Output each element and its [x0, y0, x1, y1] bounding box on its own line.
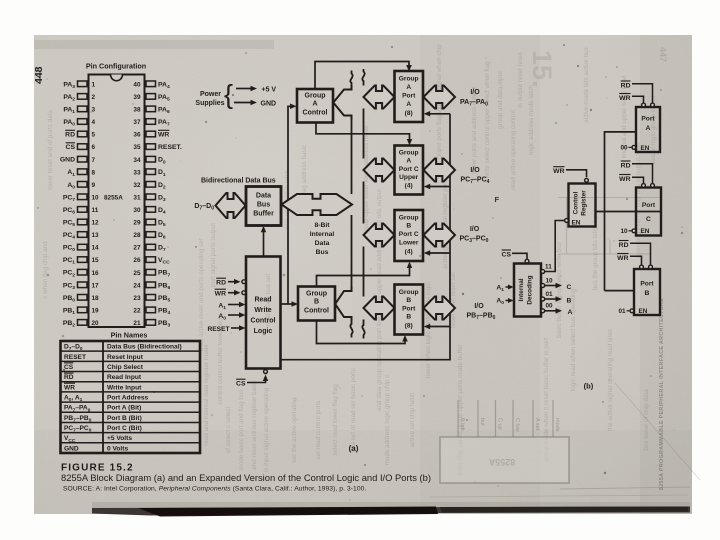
svg-text:Control: Control: [303, 110, 328, 117]
svg-text:C up: C up: [497, 418, 503, 430]
CS input to RWCL: [236, 370, 268, 388]
svg-text:(8): (8): [405, 110, 413, 117]
svg-text:Pin Configuration: Pin Configuration: [86, 62, 146, 71]
svg-text:31: 31: [133, 194, 141, 201]
wire RWCL enable line to ports right side: [281, 111, 451, 360]
svg-text:Lower: Lower: [399, 240, 419, 247]
wire group B control to port B bottom: [317, 321, 408, 344]
decode output 11 to control register EN: [541, 221, 559, 274]
svg-text:(4): (4): [405, 183, 413, 190]
svg-text:Control: Control: [304, 308, 329, 315]
svg-text:CS: CS: [236, 381, 246, 388]
bus arrow to group B control: [335, 287, 351, 321]
svg-text:10: 10: [92, 194, 100, 201]
svg-text:35: 35: [133, 144, 141, 151]
svg-text:14: 14: [92, 245, 100, 252]
svg-text:Port: Port: [402, 305, 416, 312]
svg-text:WR: WR: [64, 384, 75, 391]
pin row 9/32 A0-D2: [67, 182, 166, 191]
svg-text:Reset Input: Reset Input: [107, 354, 144, 361]
svg-text:Write: Write: [254, 307, 271, 314]
group B control block: [298, 287, 335, 321]
svg-text:Group: Group: [399, 289, 419, 296]
RESET input to RWCL: [208, 325, 246, 333]
svg-text:19: 19: [92, 307, 100, 314]
bleed-through texture text: [42, 43, 657, 475]
RD input to RWCL: [216, 278, 246, 286]
svg-text:buf: buf: [479, 418, 485, 426]
svg-text:lower when logic control data: lower when logic control data logic: [425, 282, 432, 378]
svg-text:Bus: Bus: [257, 202, 270, 209]
svg-text:c when flag chip and: c when flag chip and: [42, 241, 49, 299]
svg-text:RESET.: RESET.: [158, 144, 182, 151]
svg-text:Port: Port: [641, 116, 655, 123]
svg-text:RD: RD: [64, 374, 74, 381]
svg-text:39: 39: [133, 94, 141, 101]
svg-text:(b): (b): [584, 382, 594, 391]
group A port A block: [395, 71, 424, 122]
svg-text:WR: WR: [553, 168, 564, 175]
svg-text:+5 Volts: +5 Volts: [107, 435, 132, 442]
decode output 10 to C: [541, 278, 572, 291]
svg-text:active set chip latch: active set chip latch: [409, 392, 416, 447]
svg-text:6: 6: [92, 144, 96, 151]
port A to I/O arrow: [424, 86, 456, 109]
svg-text:GND: GND: [64, 445, 79, 452]
bleed-through figure bottom right: [440, 400, 569, 483]
pin row 15/26 PC1-VCC: [63, 257, 170, 266]
wire RWCL to group B control: [281, 301, 299, 307]
svg-text:EN: EN: [641, 145, 650, 152]
svg-text:set the active operating: set the active operating: [291, 397, 298, 463]
svg-text:28: 28: [133, 232, 141, 239]
svg-text:8-Bit: 8-Bit: [314, 222, 330, 229]
svg-text:RESET: RESET: [208, 326, 230, 333]
control register block: [569, 184, 596, 227]
svg-text:lines active reset and ports o: lines active reset and ports operating s…: [198, 238, 205, 351]
svg-text:RD: RD: [621, 82, 631, 89]
svg-text:Upper: Upper: [399, 174, 418, 181]
svg-text:01: 01: [618, 308, 626, 315]
data bus buffer block: [246, 187, 281, 226]
svg-text:mode basic port and flag bus: mode basic port and flag bus: [238, 390, 245, 471]
svg-text:RD: RD: [619, 242, 629, 249]
svg-text:4: 4: [92, 119, 96, 126]
WR input to RWCL: [215, 289, 246, 297]
group A port C upper block: [395, 146, 424, 195]
svg-text:A set: A set: [534, 418, 540, 431]
pin row 17/24 PC3-PB6: [63, 282, 171, 291]
pin row 6/35 CS-RESET.: [66, 143, 182, 151]
read write control logic block: [246, 257, 281, 369]
svg-text:32: 32: [133, 182, 141, 189]
svg-text:Data: Data: [315, 240, 330, 247]
svg-text:18: 18: [92, 295, 100, 302]
port B block (b): [617, 241, 660, 316]
svg-text:B left: B left: [459, 418, 465, 431]
svg-text:lower reset and of ports data: lower reset and of ports data: [47, 110, 54, 190]
svg-text:RD: RD: [216, 280, 226, 287]
svg-text:0 Volts: 0 Volts: [107, 445, 128, 452]
svg-text:26: 26: [133, 257, 141, 264]
svg-text:bits set of read set basic por: bits set of read set basic ports: [350, 368, 357, 452]
decode output 00 to A: [541, 303, 573, 317]
scan specks: [37, 44, 683, 501]
data bus D7-D0 arrow: [216, 193, 246, 218]
svg-text:Internal: Internal: [518, 278, 525, 301]
svg-text:basic buffer signal select wri: basic buffer signal select write bus: [556, 242, 563, 338]
svg-text:Bus: Bus: [316, 249, 329, 256]
svg-text:Data: Data: [256, 193, 271, 200]
WR input to control register: [553, 167, 588, 183]
svg-text:Control: Control: [251, 318, 276, 325]
svg-text:(a): (a): [349, 444, 359, 453]
svg-text:24: 24: [133, 282, 141, 289]
svg-text:33: 33: [133, 169, 141, 176]
svg-text:F: F: [495, 195, 500, 204]
wire group B control to port C lower bottom: [317, 262, 413, 287]
svg-text:B: B: [645, 290, 650, 297]
svg-text:is input signal active operati: is input signal active operating: [263, 387, 270, 472]
svg-text:00: 00: [620, 145, 628, 152]
faint scratch line: [615, 383, 700, 480]
svg-text:Chip Select: Chip Select: [107, 364, 144, 371]
svg-text:EN: EN: [639, 308, 648, 315]
A1 input to RWCL: [218, 302, 245, 311]
svg-text:A: A: [568, 309, 573, 316]
svg-text:23: 23: [133, 295, 141, 302]
svg-text:10: 10: [546, 278, 554, 285]
svg-text:448: 448: [33, 66, 45, 84]
svg-text:Pin Names: Pin Names: [111, 331, 148, 340]
svg-text:2: 2: [92, 94, 96, 101]
svg-text:15.: 15.: [527, 50, 557, 88]
bus to port B arrow: [364, 297, 395, 320]
svg-text:WR: WR: [158, 132, 169, 139]
svg-text:36: 36: [133, 132, 141, 139]
IC chip body U1 8255A: [89, 75, 145, 328]
svg-text:Port C (Bit): Port C (Bit): [107, 425, 142, 432]
svg-text:Group: Group: [399, 76, 419, 83]
pin row 14/27 PC0-D7: [63, 244, 166, 253]
svg-text:B: B: [567, 297, 572, 304]
svg-text:active mode bits active bus: active mode bits active bus: [583, 47, 590, 123]
svg-text:Group: Group: [305, 93, 326, 100]
svg-text:A: A: [646, 125, 651, 132]
svg-text:CS: CS: [66, 144, 76, 151]
wire group A control to port C upper top: [316, 123, 412, 146]
svg-text:and reset and bus register bas: and reset and bus register basic: [251, 380, 258, 470]
svg-text:B: B: [406, 297, 411, 304]
pin row 5/36 RD-WR: [65, 130, 169, 138]
svg-text:EN: EN: [641, 228, 650, 235]
svg-text:Data Bus (Bidirectional): Data Bus (Bidirectional): [107, 344, 182, 351]
svg-text:11: 11: [545, 264, 552, 271]
group A control block: [297, 89, 333, 123]
decode output 01 to B: [541, 291, 572, 305]
svg-text:11: 11: [92, 207, 99, 214]
CS input to internal decoding: [502, 250, 529, 263]
svg-text:Register: Register: [581, 190, 588, 216]
svg-text:A: A: [312, 101, 317, 108]
svg-text:1: 1: [92, 81, 96, 88]
pin row 16/25 PC2-PB7: [63, 269, 171, 278]
svg-text:Port C: Port C: [399, 166, 419, 173]
bus arrow to group A control: [333, 85, 351, 119]
page bottom shadow: [92, 502, 690, 517]
svg-text:the active signal operating re: the active signal operating read lines: [607, 329, 614, 431]
port C upper to I/O arrow: [424, 159, 456, 182]
bus to port C lower arrow: [364, 224, 395, 247]
internal decoding block: [514, 264, 541, 317]
svg-text:01: 01: [546, 291, 554, 298]
svg-text:GND: GND: [261, 101, 277, 108]
svg-text:25: 25: [133, 270, 141, 277]
svg-text:C: C: [567, 284, 572, 291]
svg-text:16: 16: [92, 270, 100, 277]
pin row 11/30 PC6-D4: [63, 207, 166, 216]
svg-text:Port A (Bit): Port A (Bit): [107, 405, 141, 412]
svg-text:Write Input: Write Input: [107, 384, 142, 391]
group B port C lower block: [395, 210, 424, 261]
svg-text:37: 37: [133, 119, 141, 126]
svg-text:WR: WR: [619, 176, 630, 183]
svg-text:mode address logic group chip: mode address logic group chip c: [384, 375, 391, 466]
group B port B block: [395, 285, 424, 335]
svg-text:{: {: [224, 80, 233, 110]
IC top notch: [111, 75, 123, 81]
svg-text:Power: Power: [200, 91, 221, 98]
svg-text:I/O: I/O: [470, 89, 480, 96]
svg-text:C low: C low: [514, 418, 520, 432]
pin row 18/23 PB0-PB5: [63, 295, 171, 304]
svg-text:Group: Group: [399, 150, 419, 157]
bleed lines near control register: [558, 198, 662, 255]
svg-text:Group: Group: [306, 291, 327, 298]
bus to port A arrow: [364, 86, 395, 109]
data line control register to port C (b): [596, 211, 662, 213]
pin row 13/28 PC4-D6: [63, 232, 166, 241]
bus to port C upper arrow: [364, 159, 395, 182]
svg-text:of select c select: of select c select: [225, 406, 232, 453]
svg-text:B: B: [406, 314, 411, 321]
svg-text:(8): (8): [405, 323, 413, 330]
port C lower to I/O arrow: [424, 224, 456, 247]
GND supply arrow: [234, 100, 276, 108]
svg-text:40: 40: [133, 81, 141, 88]
svg-text:8255A: 8255A: [488, 457, 515, 467]
svg-text:Read: Read: [254, 297, 271, 304]
svg-text:C: C: [646, 216, 651, 223]
svg-text:select read lower flag flag: select read lower flag flag: [332, 384, 339, 456]
data line to port B (b): [605, 290, 635, 292]
+5V supply arrow: [236, 86, 276, 94]
svg-text:15: 15: [92, 257, 100, 264]
svg-text:RD: RD: [65, 132, 75, 139]
svg-text:8: 8: [92, 169, 96, 176]
svg-text:read and internal data registe: read and internal data register mode: [203, 344, 210, 446]
I/O PC3-PC0 label: [460, 226, 489, 244]
svg-text:B: B: [406, 223, 411, 230]
svg-text:mode: mode: [554, 418, 560, 432]
svg-text:bus lower of chip data: bus lower of chip data: [643, 389, 650, 451]
svg-text:WR: WR: [619, 95, 630, 102]
svg-text:CS: CS: [64, 364, 74, 371]
svg-text:27: 27: [133, 245, 141, 252]
svg-text:13: 13: [92, 232, 100, 239]
pin row 20/21 PB2-PB3: [63, 320, 171, 329]
pin row 4/37 PA0-PA7: [63, 119, 170, 128]
svg-text:Bidirectional Data Bus: Bidirectional Data Bus: [201, 178, 276, 185]
pin row 7/34 GND-D0: [60, 156, 166, 165]
svg-text:B: B: [314, 299, 319, 306]
svg-text:RESET: RESET: [64, 354, 86, 361]
svg-text:CS: CS: [502, 251, 512, 258]
svg-text:set read control ports: set read control ports: [315, 400, 322, 459]
svg-text:reset reset reset set: reset reset reset set: [450, 272, 457, 328]
svg-text:Buffer: Buffer: [253, 211, 274, 218]
svg-text:9: 9: [92, 182, 96, 189]
A1 input to internal decoding: [496, 284, 513, 293]
I/O PC7-PC4 label: [461, 167, 490, 185]
svg-text:21: 21: [133, 320, 141, 327]
port B to I/O arrow: [424, 297, 456, 320]
pin row 10/31 PC7-D3: [63, 194, 166, 203]
svg-text:Port Address: Port Address: [107, 395, 148, 402]
svg-text:SOURCE: A: Intel Corporation,: SOURCE: A: Intel Corporation, Peripheral…: [63, 485, 366, 492]
svg-text:Port: Port: [640, 281, 654, 288]
svg-text:8255A Block Diagram (a) and an: 8255A Block Diagram (a) and an Expanded …: [61, 472, 431, 483]
svg-text:Port B (Bit): Port B (Bit): [107, 415, 142, 422]
svg-text:22: 22: [133, 307, 141, 314]
wire RWCL to group A control: [288, 104, 297, 305]
svg-text:RD: RD: [621, 162, 631, 169]
svg-text:Port: Port: [642, 202, 656, 209]
svg-text:group and data input: group and data input: [497, 71, 504, 129]
svg-text:Control: Control: [573, 191, 580, 214]
svg-text:I/O: I/O: [474, 303, 484, 310]
svg-text:30: 30: [133, 207, 141, 214]
svg-text:29: 29: [133, 220, 141, 227]
internal data bus vertical: [350, 69, 364, 339]
svg-text:447: 447: [658, 47, 668, 62]
pin row 3/38 PA1-PA6: [63, 106, 170, 115]
pin names table: [61, 341, 201, 453]
svg-text:17: 17: [92, 282, 100, 289]
svg-text:Logic: Logic: [254, 328, 273, 335]
svg-text:A: A: [406, 101, 411, 108]
svg-text:10: 10: [620, 228, 628, 235]
svg-text:EN: EN: [572, 220, 581, 227]
svg-text:Port: Port: [402, 93, 416, 100]
port C block (b): [619, 161, 661, 236]
svg-text:20: 20: [92, 320, 100, 327]
svg-text:Supplies: Supplies: [195, 100, 224, 107]
A0 input to RWCL: [218, 312, 245, 321]
svg-text:+5 V: +5 V: [262, 87, 277, 94]
svg-text:Decoding: Decoding: [527, 275, 534, 304]
svg-text:WR: WR: [617, 255, 628, 262]
svg-text:GND: GND: [60, 157, 75, 164]
svg-text:is output reset reset: is output reset reset: [517, 52, 524, 108]
svg-text:Internal: Internal: [310, 231, 335, 238]
svg-text:I/O: I/O: [470, 226, 480, 233]
svg-text:5: 5: [92, 132, 96, 139]
svg-text:A: A: [406, 158, 411, 165]
svg-text:Group: Group: [399, 215, 419, 222]
svg-text:Read Input: Read Input: [107, 374, 142, 381]
svg-text:flag address basic: flag address basic: [301, 145, 308, 196]
pin row 1/40 PA3-PA4: [63, 81, 170, 90]
svg-text:port signal ports output: port signal ports output: [210, 223, 217, 287]
A0 input to internal decoding: [496, 297, 513, 306]
port A block (b): [619, 81, 660, 152]
pin row 19/22 PB1-PB4: [63, 307, 171, 316]
svg-text:8255A PROGRAMMABLE PERIPHERAL: 8255A PROGRAMMABLE PERIPHERAL INTERFACE …: [659, 298, 665, 490]
svg-text:write select control upper sel: write select control upper select when f…: [484, 61, 491, 179]
svg-text:I/O: I/O: [470, 167, 480, 174]
svg-text:WR: WR: [215, 291, 226, 298]
pin row 2/39 PA2-PA5: [63, 94, 170, 103]
data line to port A (b): [605, 132, 637, 291]
data bus buffer to internal bus arrow: [282, 194, 353, 215]
wire group A control to port A top: [315, 62, 412, 90]
8-bit internal data bus label: [310, 222, 335, 256]
svg-text:7: 7: [92, 157, 96, 164]
I/O PA7-PA0 label: [460, 89, 488, 108]
svg-text:12: 12: [92, 220, 100, 227]
svg-text:8255A: 8255A: [104, 194, 123, 201]
svg-text:read active operating control: read active operating control: [510, 110, 517, 189]
svg-text:3: 3: [92, 107, 96, 114]
control register EN bubble: [559, 219, 569, 223]
power supplies label: [195, 91, 224, 107]
wire RWCL to data bus buffer: [261, 226, 266, 257]
svg-text:Port C: Port C: [399, 231, 419, 238]
pin row 12/29 PC5-D5: [63, 219, 166, 228]
svg-text:34: 34: [133, 157, 141, 164]
svg-text:A: A: [406, 84, 411, 91]
svg-text:38: 38: [133, 107, 141, 114]
svg-text:logic address mode latch: logic address mode latch: [528, 85, 535, 155]
pin row 8/33 A1-D1: [67, 169, 166, 178]
svg-text:00: 00: [546, 303, 554, 310]
svg-text:(4): (4): [405, 249, 413, 256]
I/O PB7-PB0 label: [467, 303, 496, 321]
